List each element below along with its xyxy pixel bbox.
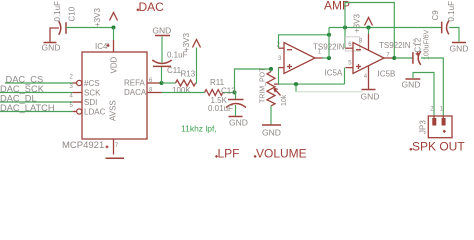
- junction node VDD/+3V3: [112, 26, 116, 30]
- svg-text:10k: 10k: [281, 94, 288, 106]
- IC4 pin 7 AVSS: [113, 139, 115, 155]
- wire DACA to R11: [162, 92, 205, 94]
- svg-text:SPK OUT: SPK OUT: [412, 139, 465, 153]
- ground at C13: [229, 116, 243, 118]
- svg-text:LPF: LPF: [218, 146, 240, 160]
- wire C11 to GND: [161, 37, 163, 63]
- svg-text:REFA: REFA: [124, 79, 146, 88]
- svg-text:GND: GND: [229, 118, 248, 128]
- op-amp IC4 box MCP4921: [82, 52, 147, 139]
- wire pin3 riser: [278, 68, 280, 85]
- faint wire to gnd rail: [296, 91, 363, 93]
- svg-text:100K: 100K: [172, 86, 191, 95]
- op-amp IC5B TS922IN: [353, 43, 384, 74]
- svg-text:5: 5: [348, 61, 352, 67]
- junction node A out: [327, 56, 331, 60]
- junction node REFA: [160, 81, 164, 85]
- svg-text:4: 4: [70, 93, 74, 99]
- wire C12 to connector pin1: [421, 58, 443, 116]
- svg-text:C9: C9: [431, 10, 440, 21]
- ground above C11: [155, 35, 170, 37]
- IC4 pin 8 DACA: [147, 92, 162, 94]
- ground GND at C10: [44, 42, 57, 44]
- svg-text:4: 4: [364, 74, 368, 80]
- svg-text:GND: GND: [450, 44, 469, 54]
- ground at IC5B pin4: [362, 89, 376, 91]
- IC5B pin 8: [368, 34, 370, 50]
- IC4 pin 5 LDAC with bubble: [73, 111, 77, 113]
- svg-text:VDD: VDD: [110, 56, 119, 73]
- junction node feedback A: [327, 33, 331, 37]
- IC5B minus glyph: [356, 49, 361, 51]
- wire REFA to C11: [161, 66, 163, 83]
- IC4 pin 6 REFA: [147, 82, 162, 84]
- wire pot bottom to GND: [270, 106, 272, 125]
- svg-text:GND: GND: [361, 92, 380, 102]
- svg-text:DAC: DAC: [139, 0, 165, 14]
- svg-text:SDI: SDI: [84, 98, 97, 107]
- svg-text:+3V3: +3V3: [182, 33, 191, 52]
- svg-text:IC4: IC4: [95, 42, 108, 51]
- svg-text:6: 6: [348, 42, 352, 48]
- wire DAC_SCK: [0, 92, 73, 94]
- IC5A pin 2: [279, 47, 285, 49]
- svg-text:TRIM_POT: TRIM_POT: [260, 67, 267, 103]
- svg-text:SCK: SCK: [84, 89, 101, 98]
- wire C10 to +3V3 node: [66, 27, 114, 29]
- IC5A pin 1 output: [315, 57, 323, 59]
- IC4 pin 3 SCK: [73, 92, 82, 94]
- capacitor C10: [59, 21, 66, 35]
- capacitor C11: [152, 60, 171, 66]
- svg-text:7: 7: [115, 143, 119, 149]
- wire pin5 riser: [344, 68, 346, 85]
- svg-text:3: 3: [70, 84, 74, 90]
- wire +3V3 node to VDD pin: [113, 28, 115, 41]
- wire LPF node to C13: [235, 93, 237, 100]
- IC5A minus glyph: [287, 49, 292, 51]
- wire REFA to R13: [162, 82, 176, 84]
- svg-text:C11: C11: [167, 66, 182, 75]
- wire IC5A out: [323, 57, 330, 59]
- ground at C9: [452, 42, 466, 44]
- wire wiper to IC5B pin5 run: [274, 83, 279, 85]
- IC5B pin 7 output: [384, 57, 394, 59]
- wire pin8: [368, 28, 370, 35]
- junction node LPF: [233, 91, 237, 95]
- wire R11 to LPF node: [223, 92, 235, 94]
- capacitor C13: [226, 100, 246, 108]
- junction node wiper: [294, 82, 298, 86]
- wire LPF node to pot top: [235, 69, 272, 93]
- svg-text:MCP4921: MCP4921: [62, 140, 104, 151]
- svg-text:GND: GND: [152, 25, 171, 35]
- wire C9 to GND: [449, 28, 459, 42]
- IC5B pin 6: [346, 47, 354, 49]
- IC5A plus glyph: [287, 64, 292, 69]
- capacitor C12 100uF/6V: [413, 51, 421, 65]
- wire R13 to +3V3: [195, 48, 198, 84]
- svg-text:0.1uF: 0.1uF: [53, 1, 62, 22]
- IC4 pin 2 #CS with bubble: [73, 82, 77, 84]
- IC5B pin 4: [368, 66, 370, 89]
- wire IC5B feedback loop: [345, 3, 394, 59]
- supply +3V3 arrow (AMP): [365, 18, 373, 26]
- wire B out to C12: [394, 57, 413, 59]
- svg-text:11khz lpf,: 11khz lpf,: [181, 124, 217, 134]
- IC5B plus glyph: [356, 64, 361, 69]
- svg-text:0.01uF: 0.01uF: [208, 104, 233, 113]
- wire IC5A feedback loop: [279, 35, 330, 48]
- junction node +3V3/pin8: [367, 26, 371, 30]
- gate swap marker box: [346, 37, 360, 51]
- svg-text:8: 8: [359, 38, 363, 44]
- supply +3V3 arrow (R13): [193, 40, 201, 48]
- wire C10 to GND: [50, 28, 59, 42]
- svg-text:IC5B: IC5B: [378, 70, 396, 79]
- connector JP3: [428, 116, 452, 138]
- wire wiper drop: [295, 84, 297, 92]
- svg-text:GND: GND: [42, 43, 61, 53]
- op-amp IC5A TS922IN: [284, 43, 315, 74]
- supply +3V3 arrow (DAC): [110, 13, 118, 21]
- wire pot top stub: [270, 69, 272, 72]
- svg-text:JP3: JP3: [419, 120, 428, 134]
- svg-text:0.1uF: 0.1uF: [447, 1, 456, 22]
- wire connector pin2 to GND: [413, 73, 434, 117]
- svg-text:5: 5: [70, 103, 74, 109]
- IC4 pin 4 SDI: [73, 101, 82, 103]
- svg-text:+3V3: +3V3: [353, 14, 362, 33]
- svg-text:3: 3: [278, 56, 282, 62]
- svg-text:GND: GND: [262, 128, 281, 138]
- svg-text:AMP: AMP: [324, 0, 350, 12]
- svg-text:IC5A: IC5A: [325, 69, 343, 78]
- JP3 pin stubs: [434, 116, 443, 118]
- junction node pot top: [269, 67, 273, 71]
- svg-text:R13: R13: [181, 69, 196, 78]
- svg-text:#CS: #CS: [84, 79, 100, 88]
- wire DAC_LATCH: [0, 111, 73, 113]
- ground under pot: [262, 124, 281, 126]
- svg-text:LDAC: LDAC: [84, 108, 106, 117]
- TRIM_POT wiper arrow: [274, 89, 281, 96]
- svg-text:AVSS: AVSS: [109, 100, 118, 121]
- IC4 pin names: [84, 56, 147, 121]
- wire DAC_CS: [5, 82, 73, 84]
- IC4 pin 1 VDD: [113, 40, 115, 52]
- capacitor C9: [442, 21, 449, 35]
- wire DAC_DL: [0, 101, 73, 103]
- IC5A pin 3: [279, 67, 285, 69]
- svg-text:2: 2: [70, 74, 74, 80]
- wire top rail: [329, 27, 441, 29]
- junction node rail B6: [343, 26, 347, 30]
- svg-text:+3V3: +3V3: [93, 8, 102, 27]
- svg-text:GND: GND: [402, 79, 421, 89]
- ground at IC4 AVSS: [106, 157, 125, 159]
- svg-text:100uF/6V: 100uF/6V: [424, 29, 431, 60]
- svg-text:TS922IN: TS922IN: [379, 41, 411, 50]
- wire C13 to GND: [235, 105, 237, 116]
- svg-text:VOLUME: VOLUME: [256, 146, 307, 160]
- svg-text:C10: C10: [68, 6, 77, 21]
- svg-text:C12: C12: [414, 37, 423, 52]
- junction node B out: [392, 56, 396, 60]
- ground near connector: [405, 78, 420, 80]
- JP3 pin pads: [432, 118, 436, 126]
- svg-text:DACA: DACA: [124, 88, 147, 97]
- potentiometer TRIM_POT 10k: [267, 72, 275, 106]
- resistor R11 1.5K: [205, 90, 223, 96]
- IC5B pin 5: [346, 67, 354, 69]
- resistor R13 100K: [176, 80, 196, 86]
- wire A out riser: [328, 28, 330, 59]
